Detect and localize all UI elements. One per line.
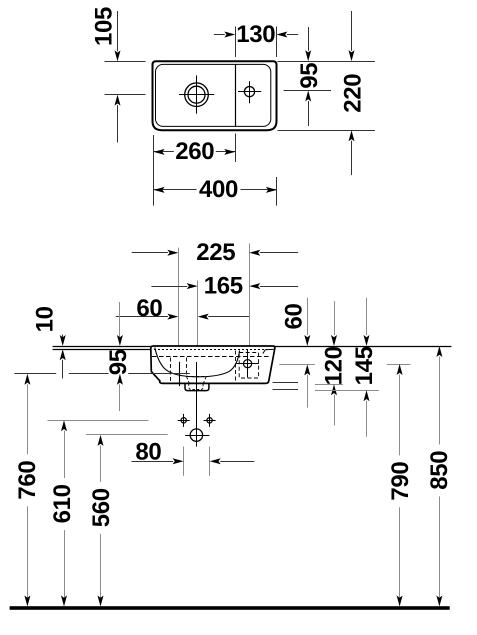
svg-text:790: 790 [387,462,414,501]
svg-text:260: 260 [175,138,214,165]
svg-text:850: 850 [426,451,453,490]
svg-text:80: 80 [135,439,161,466]
svg-text:225: 225 [196,239,235,266]
svg-text:10: 10 [32,306,59,332]
svg-text:165: 165 [204,272,243,299]
svg-text:610: 610 [49,484,76,523]
svg-text:400: 400 [199,176,238,203]
svg-text:95: 95 [105,349,132,375]
svg-text:120: 120 [321,346,348,385]
svg-text:220: 220 [339,74,366,113]
svg-text:60: 60 [136,295,162,322]
svg-text:760: 760 [14,461,41,500]
svg-text:95: 95 [296,63,323,89]
svg-text:145: 145 [351,346,378,385]
svg-text:105: 105 [90,7,117,46]
svg-text:60: 60 [280,304,307,330]
svg-text:560: 560 [88,488,115,527]
svg-text:130: 130 [236,21,275,48]
